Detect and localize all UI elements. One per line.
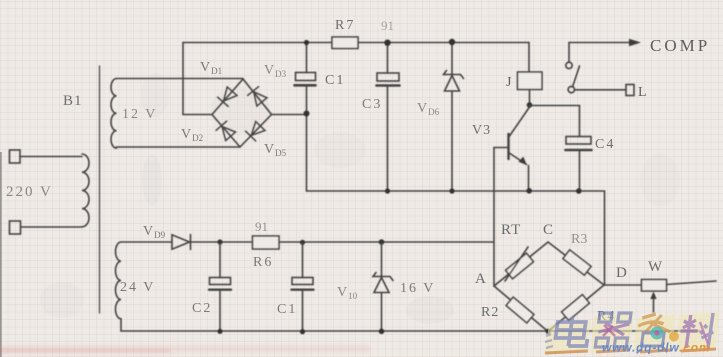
capacitor C1 lower leads <box>302 242 304 332</box>
node dot C1b top <box>300 240 305 245</box>
node dot C2 bottom <box>217 329 222 334</box>
node dot zener16 top <box>379 239 385 245</box>
wire 24V winding bottom to ground rail <box>120 319 122 331</box>
diode VD3 top-right arm <box>248 87 268 107</box>
rectifier bridge diamond <box>212 79 272 147</box>
svg-text:V10: V10 <box>337 285 358 301</box>
capacitor C2 plates <box>210 278 231 285</box>
svg-text:J: J <box>506 75 512 90</box>
node dot zener16 bottom <box>379 329 385 335</box>
wire node D to potentiometer W <box>604 284 642 286</box>
resistor R7 <box>332 37 358 49</box>
potentiometer W wiper arrow <box>653 297 655 312</box>
scan pink streak bottom <box>0 345 370 353</box>
transformer B1 core <box>99 66 101 313</box>
transformer B1 24V secondary winding <box>116 242 122 319</box>
wire node to C4 <box>530 106 580 137</box>
node dot bridge bottom <box>545 329 550 334</box>
node dot VD6 top <box>449 39 455 45</box>
zener diode V10 16V symbol <box>373 273 393 281</box>
transistor V3 collector <box>510 107 530 136</box>
watermark flower icon <box>651 327 680 342</box>
svg-text:91: 91 <box>255 219 268 234</box>
svg-text:A: A <box>475 271 486 287</box>
node dot VD6 bottom <box>449 188 454 193</box>
switch contact lower circle <box>568 86 574 92</box>
svg-text:16 V: 16 V <box>400 281 435 296</box>
load L box <box>626 85 634 96</box>
svg-text:VD9: VD9 <box>143 224 166 240</box>
node dot emitter <box>526 188 532 194</box>
node dot C1b bottom <box>300 329 305 334</box>
wire mid rail y191 <box>307 191 605 285</box>
watermark char zi <box>634 314 672 353</box>
svg-text:R2: R2 <box>481 305 499 320</box>
node dot C1 top <box>304 40 309 45</box>
switch arm <box>573 66 580 87</box>
svg-text:VD3: VD3 <box>264 63 287 79</box>
diode VD9 <box>172 235 191 250</box>
svg-text:D: D <box>616 265 627 281</box>
resistor R4 <box>562 295 590 321</box>
plug terminal lower <box>10 221 21 234</box>
transistor V3 emitter <box>509 153 527 165</box>
node dot C1 bottom <box>304 111 310 117</box>
svg-text:C4: C4 <box>595 137 615 152</box>
wire W right lead <box>667 281 717 285</box>
wire bridge right vertex to node <box>272 114 307 116</box>
svg-text:220 V: 220 V <box>6 184 53 200</box>
svg-text:C3: C3 <box>362 97 382 112</box>
capacitor C4 plates <box>566 137 591 145</box>
svg-text:L: L <box>638 85 647 100</box>
svg-text:C2: C2 <box>192 301 212 316</box>
node dot C3 top <box>384 40 390 46</box>
capacitor C3 plates <box>377 73 399 81</box>
capacitor C4 bottom lead <box>579 152 581 192</box>
svg-text:W: W <box>648 259 663 275</box>
watermark orange baseline shadow <box>545 349 716 353</box>
capacitor C2 leads <box>219 242 221 332</box>
svg-text:C1: C1 <box>325 73 345 88</box>
resistor R2 <box>506 297 534 323</box>
svg-text:VD6: VD6 <box>417 101 440 117</box>
capacitor C1 upper plates <box>296 73 316 81</box>
svg-text:R6: R6 <box>253 255 273 270</box>
resistor R3 <box>563 250 591 275</box>
zener diode V10 16V leads <box>381 242 383 332</box>
capacitor C1 lower plates <box>292 278 313 285</box>
svg-text:VD1: VD1 <box>200 60 222 76</box>
scan smudges <box>40 73 680 324</box>
node dot C4 bottom <box>576 188 582 194</box>
plug terminal upper <box>10 150 21 163</box>
switch contact upper circle <box>566 62 572 68</box>
potentiometer W body <box>642 280 667 292</box>
transformer B1 12V secondary winding <box>111 79 116 149</box>
wire bottom rail <box>121 330 700 332</box>
svg-text:VD2: VD2 <box>181 127 203 143</box>
watermark blue fragment left <box>545 334 553 348</box>
wire relay to node <box>529 90 531 106</box>
diode VD1 top-left arm <box>218 87 238 107</box>
transistor V3 base lead <box>494 147 509 149</box>
wire to load L <box>575 89 627 91</box>
watermark char qi <box>595 313 631 347</box>
wire V3 base down to node A <box>493 148 495 287</box>
wire primary bottom lead <box>21 226 82 228</box>
wire primary top lead <box>20 156 82 158</box>
svg-text:V3: V3 <box>472 123 491 138</box>
wire drop to relay <box>528 43 530 73</box>
svg-text:C: C <box>543 222 553 238</box>
wire V3 emitter to mid rail <box>528 166 530 191</box>
svg-text:RT: RT <box>501 222 521 238</box>
svg-text:R7: R7 <box>335 18 355 33</box>
watermark char liao <box>678 313 716 349</box>
node dot relay bottom <box>527 102 533 108</box>
wire 12V top lead to bridge top vertex <box>117 78 244 80</box>
thermistor RT <box>506 253 534 279</box>
svg-text:B1: B1 <box>63 93 83 109</box>
COMP arrowhead <box>629 39 641 46</box>
zener diode VD6 symbol <box>444 71 464 79</box>
capacitor C1 upper leads <box>306 43 308 192</box>
node dot C3 bottom <box>385 188 390 193</box>
transformer B1 primary winding <box>82 154 89 227</box>
relay J coil <box>518 72 543 90</box>
transistor V3 base bar <box>507 134 509 159</box>
scan left edge <box>0 152 2 357</box>
wire top rail y42 <box>183 42 529 44</box>
diode VD5 bottom-right arm <box>246 121 266 141</box>
svg-text:COMP: COMP <box>650 36 710 55</box>
diode VD2 bottom-left arm <box>216 121 236 141</box>
watermark yellow fill band <box>544 312 719 355</box>
wire 24V rail y242 <box>121 241 494 243</box>
measuring bridge diamond A C D B <box>494 242 604 332</box>
svg-text:VD5: VD5 <box>264 142 287 158</box>
zener diode VD6 leads <box>451 43 453 192</box>
capacitor C3 leads <box>387 43 389 192</box>
svg-text:91: 91 <box>381 18 394 33</box>
wire COMP branch <box>569 42 630 44</box>
watermark char dian <box>554 317 590 346</box>
watermark magenta accents <box>603 322 708 344</box>
svg-text:www.dq-dlw.com: www.dq-dlw.com <box>602 341 710 355</box>
wire 12V bottom lead to bridge bottom vertex <box>117 146 241 148</box>
svg-text:C1: C1 <box>277 302 297 317</box>
resistor R6 <box>253 236 280 249</box>
wire switch upper lead <box>568 43 570 63</box>
node dot C2 top <box>217 239 222 244</box>
svg-text:24 V: 24 V <box>120 280 155 295</box>
wire left drop x183 to bridge left vertex <box>183 43 212 115</box>
svg-text:R3: R3 <box>571 232 587 247</box>
